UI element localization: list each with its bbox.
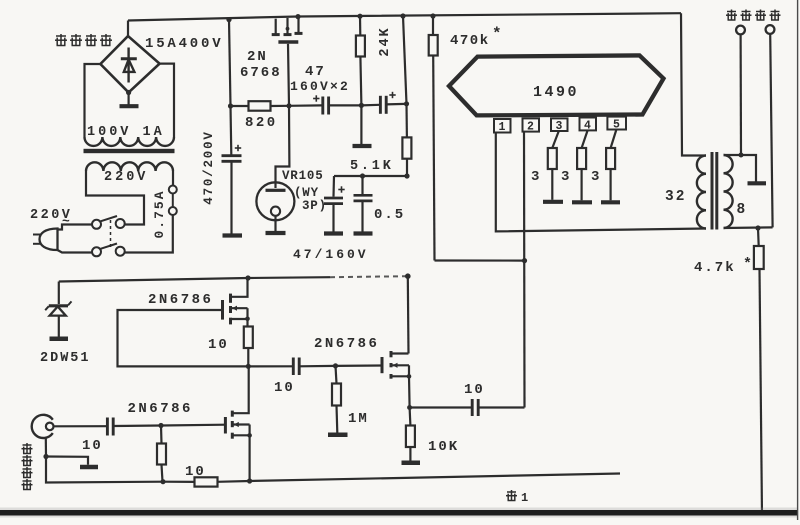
resistor 10 input <box>157 426 166 482</box>
pin box 2 <box>523 118 540 133</box>
wire T2 secondary top <box>724 155 757 182</box>
capacitor 10 G <box>107 418 113 436</box>
wire bridge bottom to ground <box>128 93 130 105</box>
label 2N 6768 <box>240 49 282 81</box>
svg-text:470k: 470k <box>450 33 490 49</box>
ground bar pin3 <box>543 200 563 204</box>
svg-text:47/160V: 47/160V <box>293 247 369 262</box>
svg-text:*: * <box>743 256 752 273</box>
capacitor 470/200V <box>222 145 242 234</box>
diode inside bridge <box>121 48 137 83</box>
zener diode 2DW51 <box>45 282 71 337</box>
transformer T2 primary winding 32 <box>697 156 706 229</box>
resistor 10 Q1 source <box>244 327 253 367</box>
junction capB rail <box>404 101 409 106</box>
junction top rail 470k <box>430 13 435 18</box>
junction top rail 24K <box>357 14 362 19</box>
resistor 820 <box>231 101 290 111</box>
wire mid junction down <box>360 105 362 144</box>
svg-text:3: 3 <box>561 169 569 185</box>
svg-text:3P): 3P) <box>302 199 327 213</box>
svg-text:6768: 6768 <box>240 65 282 81</box>
wire plug bottom to switch <box>58 250 93 253</box>
label 47 160Vx2 <box>290 64 350 94</box>
wire zener supply rail <box>59 277 330 281</box>
wire rail down to capB node <box>403 16 407 104</box>
svg-text:470/200V: 470/200V <box>202 130 216 204</box>
pin box 4 <box>580 118 597 133</box>
capacitor 47/160V C <box>324 176 345 232</box>
switch gang dashed link <box>110 220 112 249</box>
junction Q3 source <box>247 433 252 438</box>
svg-text:10: 10 <box>82 438 103 454</box>
svg-text:(WY: (WY <box>294 186 319 200</box>
wire 470k rail to pin2 <box>435 259 525 261</box>
resistor 10K <box>406 408 415 462</box>
svg-text:2N6786: 2N6786 <box>314 336 379 352</box>
wire node to cap 470/200V <box>229 106 232 155</box>
junction bridge bottom <box>126 90 131 95</box>
wire to capacitor 47-160V A <box>289 104 322 107</box>
svg-text:100V 1A: 100V 1A <box>87 125 165 140</box>
label qiaoshi guidui (bridge rectifier) <box>55 34 112 46</box>
wire jack to capG <box>54 425 107 427</box>
wire bridge left to transformer primary <box>85 64 101 137</box>
capacitor 47/160V A <box>313 95 329 114</box>
svg-text:160V×2: 160V×2 <box>290 79 350 94</box>
wire speaker left lead <box>739 34 742 155</box>
wire jack shield <box>45 437 47 457</box>
wire secondary right lead to fuse <box>172 171 174 185</box>
wire 2N6768 gate lead down to VR105 <box>276 44 290 188</box>
pin box 5 <box>607 117 626 132</box>
svg-text:0.5: 0.5 <box>374 207 405 223</box>
FET Q3 2N6786 <box>225 366 249 481</box>
svg-text:*: * <box>492 25 502 43</box>
svg-text:4.7k: 4.7k <box>694 260 736 276</box>
junction top rail at 2N6768 <box>295 14 300 19</box>
ground bar below bridge <box>120 104 139 108</box>
ground bar input <box>80 465 98 470</box>
FET Q2 2N6786 <box>382 351 410 408</box>
resistor 5.1K <box>402 104 411 176</box>
pin box 3 <box>551 118 568 133</box>
svg-text:1: 1 <box>521 491 528 505</box>
wire pin2 rail down <box>523 132 526 408</box>
wire rail dashed continuation <box>330 276 408 277</box>
wire plug top to switch <box>58 225 93 230</box>
labels 3 3 3 <box>531 169 599 185</box>
svg-text:10: 10 <box>208 337 229 353</box>
wire bridge top lead <box>127 21 129 37</box>
switch S1a upper pole <box>92 216 125 229</box>
junction 4.7k <box>755 225 760 230</box>
wire bridge right to transformer primary <box>160 64 174 137</box>
junction Q2 source <box>407 374 412 379</box>
junction speaker left <box>739 153 744 158</box>
wire pin1 to output transformer primary bottom <box>496 133 706 232</box>
capacitor 0.5 D <box>354 176 373 232</box>
junction bottom rail Q3 source <box>247 478 252 483</box>
ground bar pin4 <box>572 200 592 204</box>
bottom scan band <box>0 508 797 518</box>
junction Q1 source <box>245 317 250 322</box>
svg-text:5.1K: 5.1K <box>350 159 394 174</box>
junction top rail 5.1K <box>400 13 405 18</box>
svg-text:10: 10 <box>185 464 206 480</box>
svg-text:47: 47 <box>305 64 326 80</box>
junction 820 node left <box>228 103 233 108</box>
junction top rail x229 <box>226 17 231 22</box>
ground bar 1M <box>328 433 348 438</box>
ground bar VR105 <box>266 231 286 235</box>
svg-text:10: 10 <box>464 382 485 398</box>
label 4.7k* <box>694 256 752 276</box>
capacitor 47/160V B <box>380 92 395 114</box>
svg-text:10: 10 <box>274 380 295 396</box>
junction bottom rail input R <box>160 479 165 484</box>
resistor 3 pin3 <box>548 131 559 200</box>
label jie yangshengqi (to speaker) <box>726 10 781 21</box>
junction rail Q2 drain <box>405 273 411 279</box>
svg-text:1: 1 <box>499 121 506 134</box>
resistor 3 pin4 <box>577 130 588 200</box>
svg-text:2DW51: 2DW51 <box>40 351 91 366</box>
capacitor 10 E <box>293 358 299 376</box>
label VR105 (WY 3P) <box>282 169 327 213</box>
svg-text:10K: 10K <box>428 439 459 455</box>
resistor 10 bottom rail <box>163 477 250 486</box>
svg-text:3: 3 <box>531 169 539 185</box>
speaker terminal left <box>736 26 745 35</box>
resistor 3 pin5 <box>606 130 616 201</box>
wire capF to pin2 rail <box>478 406 524 408</box>
resistor 1M <box>332 366 341 433</box>
ground bar 10K <box>402 461 421 466</box>
wire capA to mid junction <box>329 104 362 106</box>
transformer T2 core <box>712 152 717 230</box>
bridge rectifier 15A400V diamond <box>100 36 159 93</box>
svg-text:VR105: VR105 <box>282 169 324 183</box>
transistor 2N6768 <box>272 17 303 42</box>
wire shield to ground <box>46 457 88 465</box>
wire secondary left lead to switch <box>86 171 144 225</box>
transformer T1 secondary winding 220V <box>86 162 173 171</box>
label shuru xinhao (input signal) <box>22 443 33 490</box>
pin box 1 <box>494 119 511 134</box>
junction feedback node <box>246 364 251 369</box>
svg-text:32: 32 <box>665 189 686 205</box>
speaker terminal right <box>766 25 775 34</box>
ground bar pin5 <box>601 200 620 204</box>
svg-text:2N: 2N <box>247 49 268 65</box>
svg-text:2N6786: 2N6786 <box>128 401 193 417</box>
resistor 470k <box>429 16 438 261</box>
transformer T2 secondary winding 8 <box>724 155 733 228</box>
wire fuse to lower switch <box>124 215 173 253</box>
wire capE to Q2 gate <box>299 364 382 367</box>
junction 820 right / gate node <box>286 103 291 108</box>
ground bar capC <box>324 231 343 235</box>
svg-text:820: 820 <box>245 115 278 131</box>
wire B+ rail to T2 primary top <box>681 13 706 155</box>
svg-text:0.75A: 0.75A <box>152 189 167 238</box>
input jack <box>32 415 54 438</box>
junction pin2 470k <box>522 258 527 263</box>
label tu1 (figure 1) <box>506 490 528 505</box>
junction shield <box>43 454 48 459</box>
capacitor 10 F <box>472 399 478 416</box>
svg-text:15A400V: 15A400V <box>145 36 223 52</box>
svg-text:8: 8 <box>737 202 746 218</box>
ground bar 2DW51 <box>50 337 69 342</box>
wire Q1 gate feedback loop <box>118 310 247 366</box>
wire T2 secondary bottom <box>724 226 773 229</box>
junction rail Q1 drain <box>245 275 250 280</box>
wire output node to capF <box>410 406 471 408</box>
svg-text:3: 3 <box>591 169 599 185</box>
wire capG to Q3 gate <box>113 425 225 426</box>
wire capB to 5.1K rail <box>386 103 405 106</box>
wire speaker right lead <box>770 34 772 228</box>
wire rail down to 820 node <box>229 20 231 106</box>
label 470k* <box>450 25 502 49</box>
svg-text:24K: 24K <box>378 26 393 56</box>
svg-text:220V: 220V <box>104 170 148 185</box>
voltage regulator tube VR105 <box>256 182 294 231</box>
svg-text:3: 3 <box>556 120 563 133</box>
transformer T1 primary winding 100V <box>85 137 174 146</box>
FET Q1 2N6786 <box>223 278 248 327</box>
junction 1M <box>333 363 338 368</box>
transformer T1 core <box>84 149 175 153</box>
wire shield down to bottom rail <box>46 457 163 483</box>
svg-text:2N6786: 2N6786 <box>148 292 213 308</box>
svg-text:1490: 1490 <box>533 84 579 101</box>
junction node176 right <box>404 173 409 178</box>
ground bar secondary top <box>748 181 767 185</box>
IC 1490 hexagon <box>449 55 664 115</box>
wire bottom rail <box>250 474 620 482</box>
wire node y176 <box>334 175 407 177</box>
wire to capacitor 47-160V B <box>361 104 379 107</box>
right page edge line <box>797 0 799 520</box>
AC plug <box>33 229 58 251</box>
svg-text:~: ~ <box>62 214 70 229</box>
svg-text:1M: 1M <box>348 411 369 427</box>
ground bar cap 470/200V <box>223 233 243 237</box>
svg-text:2: 2 <box>527 121 534 134</box>
wire node to capE <box>248 365 292 367</box>
fuse 0.75A <box>169 186 177 216</box>
junction output node <box>407 405 412 410</box>
bar terminal mid caps <box>353 144 372 148</box>
junction input R <box>158 423 163 428</box>
wire top B+ rail <box>128 13 681 20</box>
ground bar capD <box>354 231 373 235</box>
switch S1b lower pole <box>92 244 125 257</box>
resistor 4.7k <box>754 228 764 515</box>
junction mid caps <box>359 103 364 108</box>
wire Q2 drain rail <box>407 276 410 353</box>
junction node176 left <box>360 173 365 178</box>
resistor 24K <box>356 16 365 105</box>
